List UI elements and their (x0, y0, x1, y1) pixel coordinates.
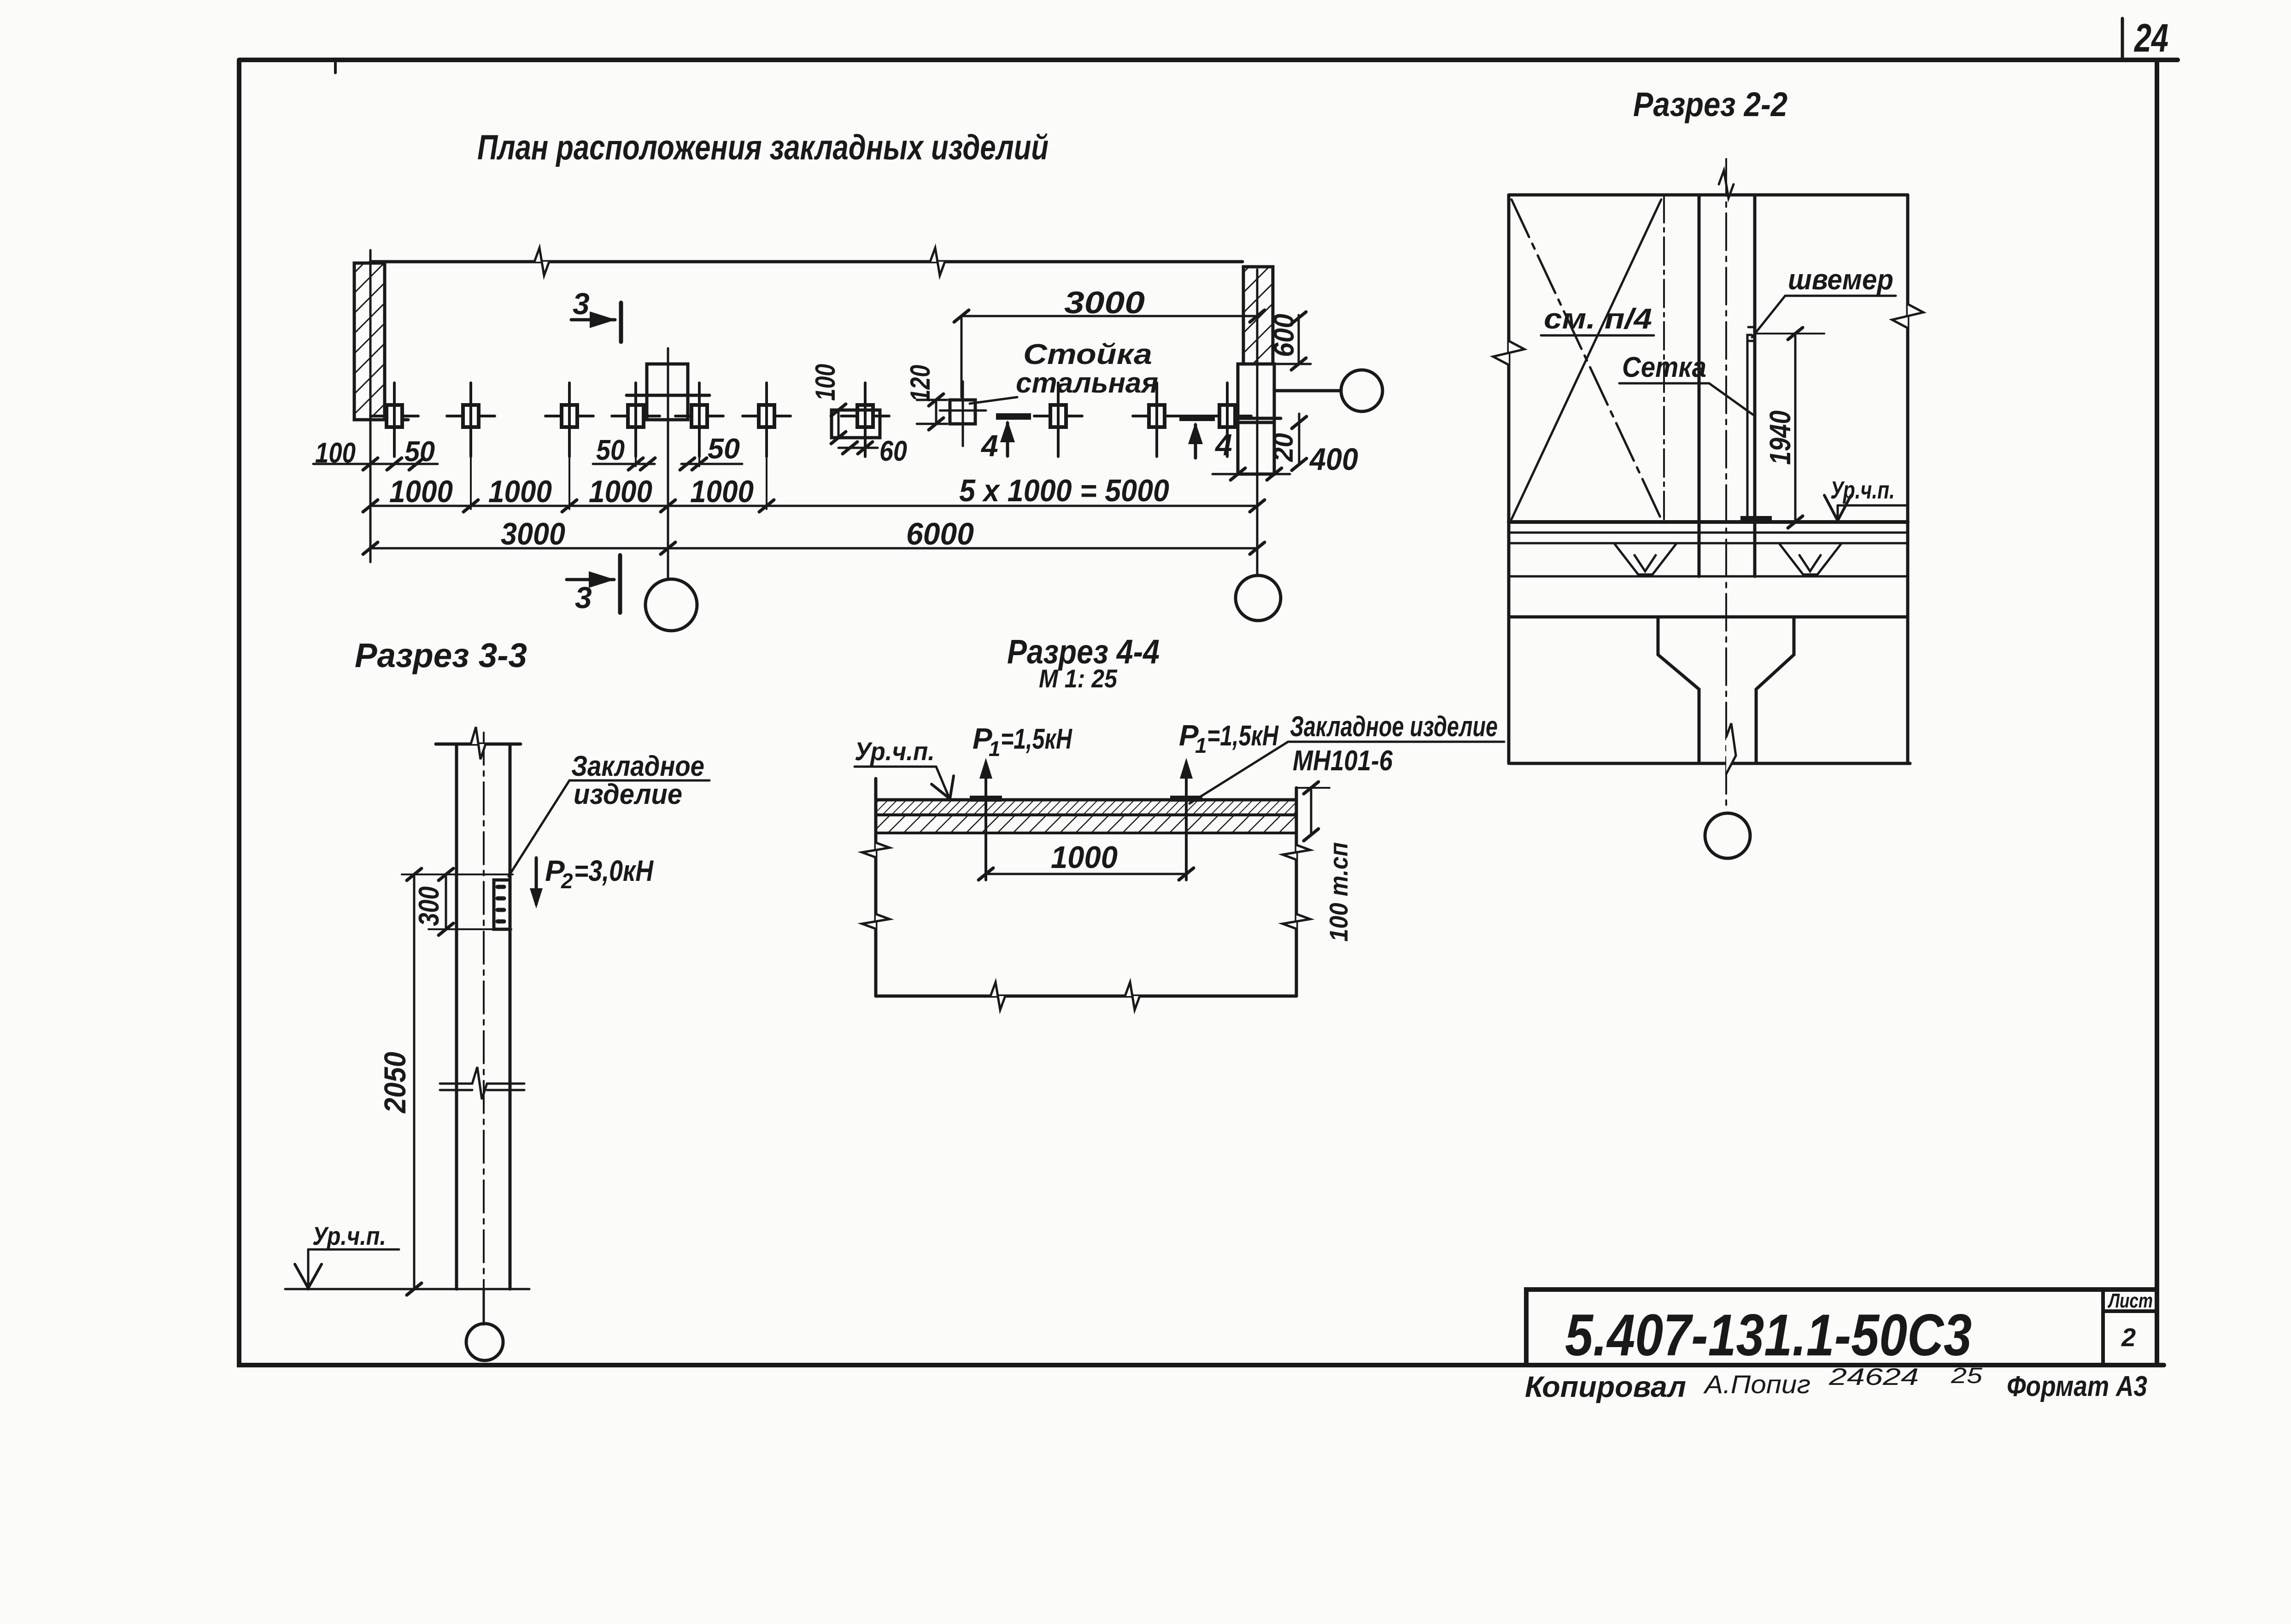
dim 3000 top (961, 315, 1257, 317)
svg-text:1000: 1000 (589, 474, 652, 509)
svg-text:Закладное: Закладное (571, 750, 704, 782)
svg-text:3000: 3000 (1064, 285, 1145, 320)
svg-text:100: 100 (810, 364, 841, 401)
section mark 3 bottom (618, 555, 622, 613)
svg-text:25: 25 (1951, 1364, 1983, 1388)
dim 50 center-left (593, 463, 655, 465)
2-2 outer box (1509, 193, 1908, 197)
4-4 embed marks (970, 796, 1002, 802)
3-3 column mid break (440, 1067, 524, 1099)
section mark 3 top (619, 303, 623, 342)
3-3 floor line (285, 1288, 529, 1290)
plan: grid circle bottom right (1236, 575, 1281, 621)
2-2 central axis (1725, 159, 1727, 811)
svg-text:Сетка: Сетка (1622, 352, 1706, 383)
svg-text:4: 4 (980, 428, 998, 463)
svg-text:5 x 1000 = 5000: 5 x 1000 = 5000 (959, 473, 1169, 508)
2-2 dim 1940 (1756, 333, 1824, 334)
svg-text:2: 2 (2121, 1323, 2136, 1352)
svg-text:Стойка: Стойка (1023, 339, 1152, 370)
svg-text:Разрез 2-2: Разрез 2-2 (1633, 85, 1787, 123)
dim 100 / 50 left (313, 463, 438, 465)
svg-text:=3,0кН: =3,0кН (574, 854, 654, 887)
3-3 column edges (455, 744, 458, 1289)
3-3 column axis (483, 733, 485, 1322)
svg-text:стальная: стальная (1016, 367, 1158, 399)
plan: embed plate 100x60 at bolt (832, 410, 880, 438)
svg-text:5.407-131.1-50С3: 5.407-131.1-50С3 (1565, 1302, 1972, 1368)
plan: left wall axis extension (369, 250, 372, 562)
plan: left wall bottom ledge (354, 418, 408, 422)
plan: axis line through central stand (667, 348, 669, 579)
svg-text:24: 24 (2133, 16, 2168, 60)
dim 600 right wall (1298, 315, 1300, 364)
svg-text:Закладное изделие: Закладное изделие (1290, 711, 1498, 743)
3-3 column top line with break (436, 743, 521, 746)
svg-text:3: 3 (575, 580, 592, 615)
3-3 dim 300 (445, 874, 447, 929)
svg-text:План расположения закладных из: План расположения закладных изделий (477, 128, 1049, 167)
plan: central steel stand (647, 364, 688, 420)
2-2 X brace diagonals (1512, 199, 1661, 519)
svg-text:20: 20 (1268, 433, 1299, 462)
2-2 wall panel verticals (1663, 195, 1665, 522)
svg-text:1940: 1940 (1764, 410, 1797, 465)
svg-text:=1,5кН: =1,5кН (1001, 723, 1072, 755)
4-4 dim 100 right (1296, 787, 1330, 789)
svg-text:2: 2 (561, 869, 573, 893)
title block frame (1526, 1290, 2157, 1365)
dim 50 center-right (681, 463, 742, 465)
svg-text:600: 600 (1268, 314, 1300, 357)
plan: right wall bolt lines (1238, 417, 1281, 420)
2-2 column capitals (1658, 617, 1699, 763)
svg-text:24624: 24624 (1828, 1364, 1919, 1390)
4-4 wall below slab (874, 779, 878, 996)
svg-text:Лист: Лист (2108, 1290, 2153, 1312)
dim row 3000/6000 (370, 547, 1257, 550)
svg-text:3000: 3000 (501, 516, 565, 551)
svg-text:Копировал: Копировал (1525, 1370, 1686, 1403)
svg-text:50: 50 (404, 436, 435, 468)
page border frame (239, 60, 2178, 1365)
svg-text:3: 3 (573, 287, 590, 321)
svg-text:М 1: 25: М 1: 25 (1039, 664, 1118, 693)
dim 60 plate (838, 447, 878, 449)
svg-text:швемер: швемер (1788, 264, 1893, 296)
svg-text:100 т.сп: 100 т.сп (1324, 842, 1353, 942)
svg-text:МН101-6: МН101-6 (1293, 745, 1393, 777)
2-2 channel post (1747, 341, 1755, 518)
svg-text:1000: 1000 (690, 474, 754, 509)
svg-text:Ур.ч.п.: Ур.ч.п. (855, 737, 935, 766)
svg-text:Разрез 3-3: Разрез 3-3 (355, 636, 527, 674)
svg-text:6000: 6000 (906, 516, 974, 551)
svg-text:1000: 1000 (1051, 840, 1118, 875)
top border fold tick (334, 61, 337, 73)
sheet number tick (2121, 18, 2124, 59)
dim 400 right wall (1213, 473, 1290, 475)
svg-text:2050: 2050 (378, 1052, 412, 1114)
svg-text:400: 400 (1309, 442, 1358, 477)
3-3 dim 2050 (413, 874, 416, 1289)
svg-text:60: 60 (879, 435, 907, 467)
svg-text:300: 300 (413, 886, 445, 926)
dim 20 right wall (1298, 414, 1301, 464)
svg-text:1: 1 (1195, 733, 1207, 757)
svg-text:см. п/4: см. п/4 (1544, 303, 1652, 335)
4-4 slab with hatch (876, 800, 1296, 815)
section mark 4 right (1179, 415, 1215, 421)
plan: grid circle right top (1341, 370, 1383, 411)
svg-text:120: 120 (905, 365, 936, 402)
dim 120 stand (935, 400, 937, 424)
2-2 floor lines (1509, 520, 1908, 524)
dim row extension lines (470, 428, 472, 509)
section mark 4 left (996, 413, 1031, 420)
svg-text:1: 1 (989, 737, 1001, 761)
2-2 axis break bottom (1726, 723, 1736, 774)
plan: left wall (hatched) (354, 263, 385, 420)
plan: right wall (hatched) (1243, 267, 1273, 364)
2-2 grid circle (1705, 813, 1750, 858)
dim row 1000s (370, 505, 1257, 507)
svg-text:1000: 1000 (488, 474, 552, 509)
2-2 bottom line (1511, 762, 1910, 765)
plan: leader line to grid circle (1274, 389, 1341, 393)
svg-text:Формат А3: Формат А3 (2007, 1371, 2147, 1402)
plan: right wall column box (1238, 364, 1274, 474)
2-2 weld plate black (1740, 516, 1772, 523)
plan: steel stand small square (950, 400, 975, 424)
2-2 rib left (1615, 544, 1676, 575)
svg-text:50: 50 (708, 433, 740, 465)
2-2 rib right (1780, 544, 1841, 575)
3-3 embed plate (494, 880, 510, 929)
svg-text:Ур.ч.п.: Ур.ч.п. (312, 1221, 386, 1250)
plan: grid circle bottom center (645, 579, 697, 631)
svg-text:1000: 1000 (389, 474, 453, 509)
2-2 beam band (1509, 575, 1908, 578)
dim 100 plate (838, 410, 840, 438)
svg-text:А.Попиг: А.Попиг (1703, 1370, 1811, 1399)
3-3 extension line at plate top (402, 874, 513, 875)
svg-text:100: 100 (315, 437, 356, 469)
plan: top edge line of slab (370, 260, 1242, 264)
2-2 edge break marks (1493, 341, 1524, 365)
svg-text:=1,5кН: =1,5кН (1207, 720, 1279, 752)
svg-text:Ур.ч.п.: Ур.ч.п. (1830, 476, 1895, 504)
svg-text:4: 4 (1214, 428, 1232, 462)
4-4 load arrows P1 (984, 765, 987, 880)
svg-text:50: 50 (596, 434, 625, 466)
extension stubs central bolts (635, 454, 637, 466)
3-3 grid circle (483, 1289, 485, 1325)
4-4 dim 1000 (986, 873, 1186, 875)
svg-text:изделие: изделие (574, 779, 682, 810)
plan: anchor bolts row (370, 383, 418, 457)
plan: right wall axis extension (1256, 270, 1259, 575)
